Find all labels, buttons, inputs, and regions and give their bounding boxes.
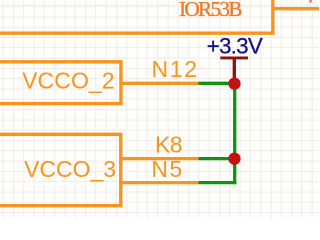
svg-text:IOR53B: IOR53B [179, 0, 243, 21]
svg-text:+3.3V: +3.3V [207, 34, 263, 59]
svg-text:VCCO_3: VCCO_3 [24, 156, 116, 182]
svg-text:N5: N5 [151, 156, 182, 182]
svg-text:VCCO_2: VCCO_2 [22, 67, 115, 93]
svg-text:K8: K8 [155, 132, 183, 158]
svg-text:N12: N12 [152, 56, 198, 82]
